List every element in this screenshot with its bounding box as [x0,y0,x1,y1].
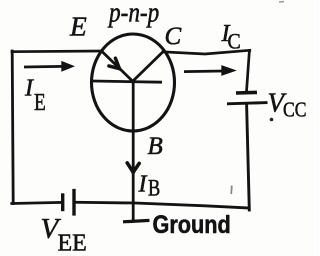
wire: right vertical lower (corner up to VCC bottom plate) [247,105,250,211]
svg-text:I: I [24,76,34,102]
base lead vertical down to ground [132,82,135,221]
VEE long plate [72,189,75,216]
VCC short plate [236,91,257,95]
arrow IE (emitter current) [24,65,63,68]
base current arrowhead (points down) [127,163,139,172]
wire: top-left horizontal (corner to transistor emitter junction) [12,50,102,53]
svg-text:I: I [138,172,148,198]
arrow IC (collector current) [184,70,223,73]
ink speck below VCC [270,118,274,122]
transistor body circle [92,34,175,131]
collector lead diagonal [133,51,164,81]
svg-text:B: B [148,133,163,160]
svg-text:E: E [34,89,46,116]
svg-text:B: B [148,175,160,202]
battery VEE plates [63,189,74,216]
wire: top-right horizontal (collector junction to corner) [163,50,250,54]
transistor Q1 (p-n-p) [92,34,175,221]
VEE short plate [61,193,64,211]
ground symbol [123,220,150,221]
wire: right vertical upper (VCC top plate up to corner) [247,52,250,92]
svg-text:C: C [165,23,182,50]
svg-text:E: E [69,11,87,42]
svg-text:Ground: Ground [153,211,231,239]
wire: bottom horizontal from VEE through base node to right corner [75,202,249,208]
svg-text:CC: CC [283,99,307,122]
wire: left vertical [12,51,13,204]
stray tick left of right wire [230,186,233,195]
svg-text:C: C [228,29,241,54]
VCC long plate [227,103,268,104]
emitter arrowhead (points into base) [109,58,120,68]
faint speck top edge [279,1,284,4]
wire: bottom-left horizontal to battery VEE [12,202,62,203]
emitter lead diagonal [102,51,133,81]
svg-text:p-n-p: p-n-p [107,0,159,28]
transistor base bar [93,81,163,82]
battery VCC plates [227,92,268,103]
svg-text:EE: EE [58,231,87,256]
